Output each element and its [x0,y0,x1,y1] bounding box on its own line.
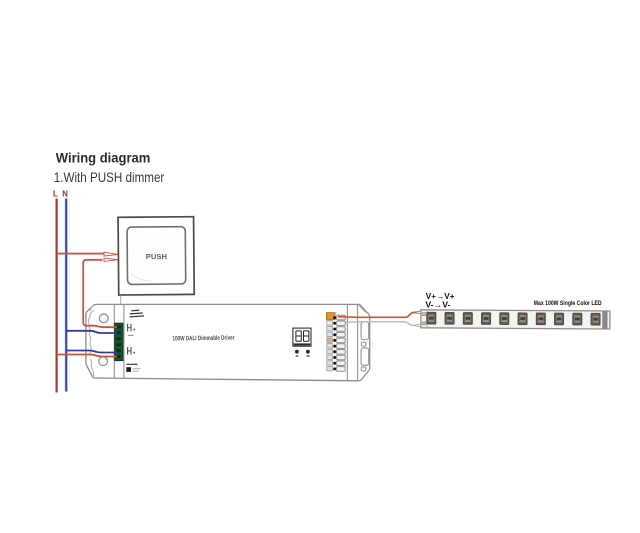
driver U1 (100W DALI Dimmable Driver) [86,304,370,380]
terminal caption bar [127,364,138,365]
strip left connector line [426,310,428,328]
left ear mounting hole top [99,314,108,323]
svg-text:L: L [53,189,58,198]
crimp fork push return [104,258,118,261]
wire L (live, red vertical) [55,199,58,393]
wire N (neutral, blue vertical) [65,199,68,392]
terminal clamp cells [337,315,346,371]
strip solder pad V+ [422,313,425,316]
left ear spring squiggle middle [89,327,91,355]
button M [295,350,299,354]
terminal slot 2 [116,331,121,334]
terminal slot 1 [116,325,121,328]
left ear mounting hole bottom [99,357,108,366]
right ear notch D [361,367,366,371]
digit 8 left [296,331,301,341]
terminal slot 5 [116,349,121,352]
wire N to DA- [66,331,117,333]
LED chips row [427,312,600,325]
svg-text:1.With PUSH dimmer: 1.With PUSH dimmer [54,170,165,185]
wire L mains input [57,355,117,357]
wire push return to DA+ [83,260,117,327]
left ear spring squiggle top [88,306,95,326]
driver small print block [129,309,144,317]
svg-text:N: N [62,189,68,198]
display bottom bar [294,343,311,345]
logo black square [126,367,131,372]
right ear notch B [361,342,366,346]
terminal screws dots [333,316,336,370]
strip body [421,310,610,329]
terminal label glyphs upper [127,324,135,336]
driver body outline [86,304,370,380]
push dimmer inner shading [131,274,151,281]
terminal label glyphs lower [127,347,135,355]
svg-text:V-→V-: V-→V- [425,299,450,309]
push dimmer SW1 [118,217,194,295]
logo side text [133,368,141,369]
push box mounting line [120,295,122,304]
wire L to push dimmer [57,253,104,255]
right ear chamfer line [358,305,366,313]
driver panel divider left outer [113,305,115,378]
wire N mains input [66,351,117,353]
left ear spring squiggle bottom [90,359,94,377]
push dimmer outer plate [118,217,194,295]
fork V- at strip [414,324,421,327]
strip end cap [602,311,607,328]
driver panel divider right outer [357,305,359,381]
button S [306,350,310,354]
driver panel divider left inner [123,305,125,378]
svg-text:Max 100W Single Color LED: Max 100W Single Color LED [534,300,602,307]
terminal slot 3 [116,337,121,340]
terminal slot 4 [116,343,121,346]
wire V- output [346,322,421,326]
7-segment display frame [293,328,311,346]
wire V+ output [338,312,421,317]
digit 8 right [304,331,309,341]
LED strip [421,310,610,329]
push dimmer button [127,227,186,285]
svg-text:PUSH: PUSH [146,252,167,261]
crimp fork L-push [104,252,118,256]
right ear notch A [361,322,369,340]
fork V+ at strip [414,311,421,314]
svg-text:100W DALI Dimmable Driver: 100W DALI Dimmable Driver [172,335,234,343]
green input terminal block [115,323,123,360]
strip solder pad V- [422,322,425,325]
right ear notch C [361,348,369,366]
terminal slot 6 [116,355,121,358]
svg-text:Wiring diagram: Wiring diagram [56,150,151,165]
right output terminal rows [327,313,336,371]
driver panel divider right inner [346,305,348,381]
